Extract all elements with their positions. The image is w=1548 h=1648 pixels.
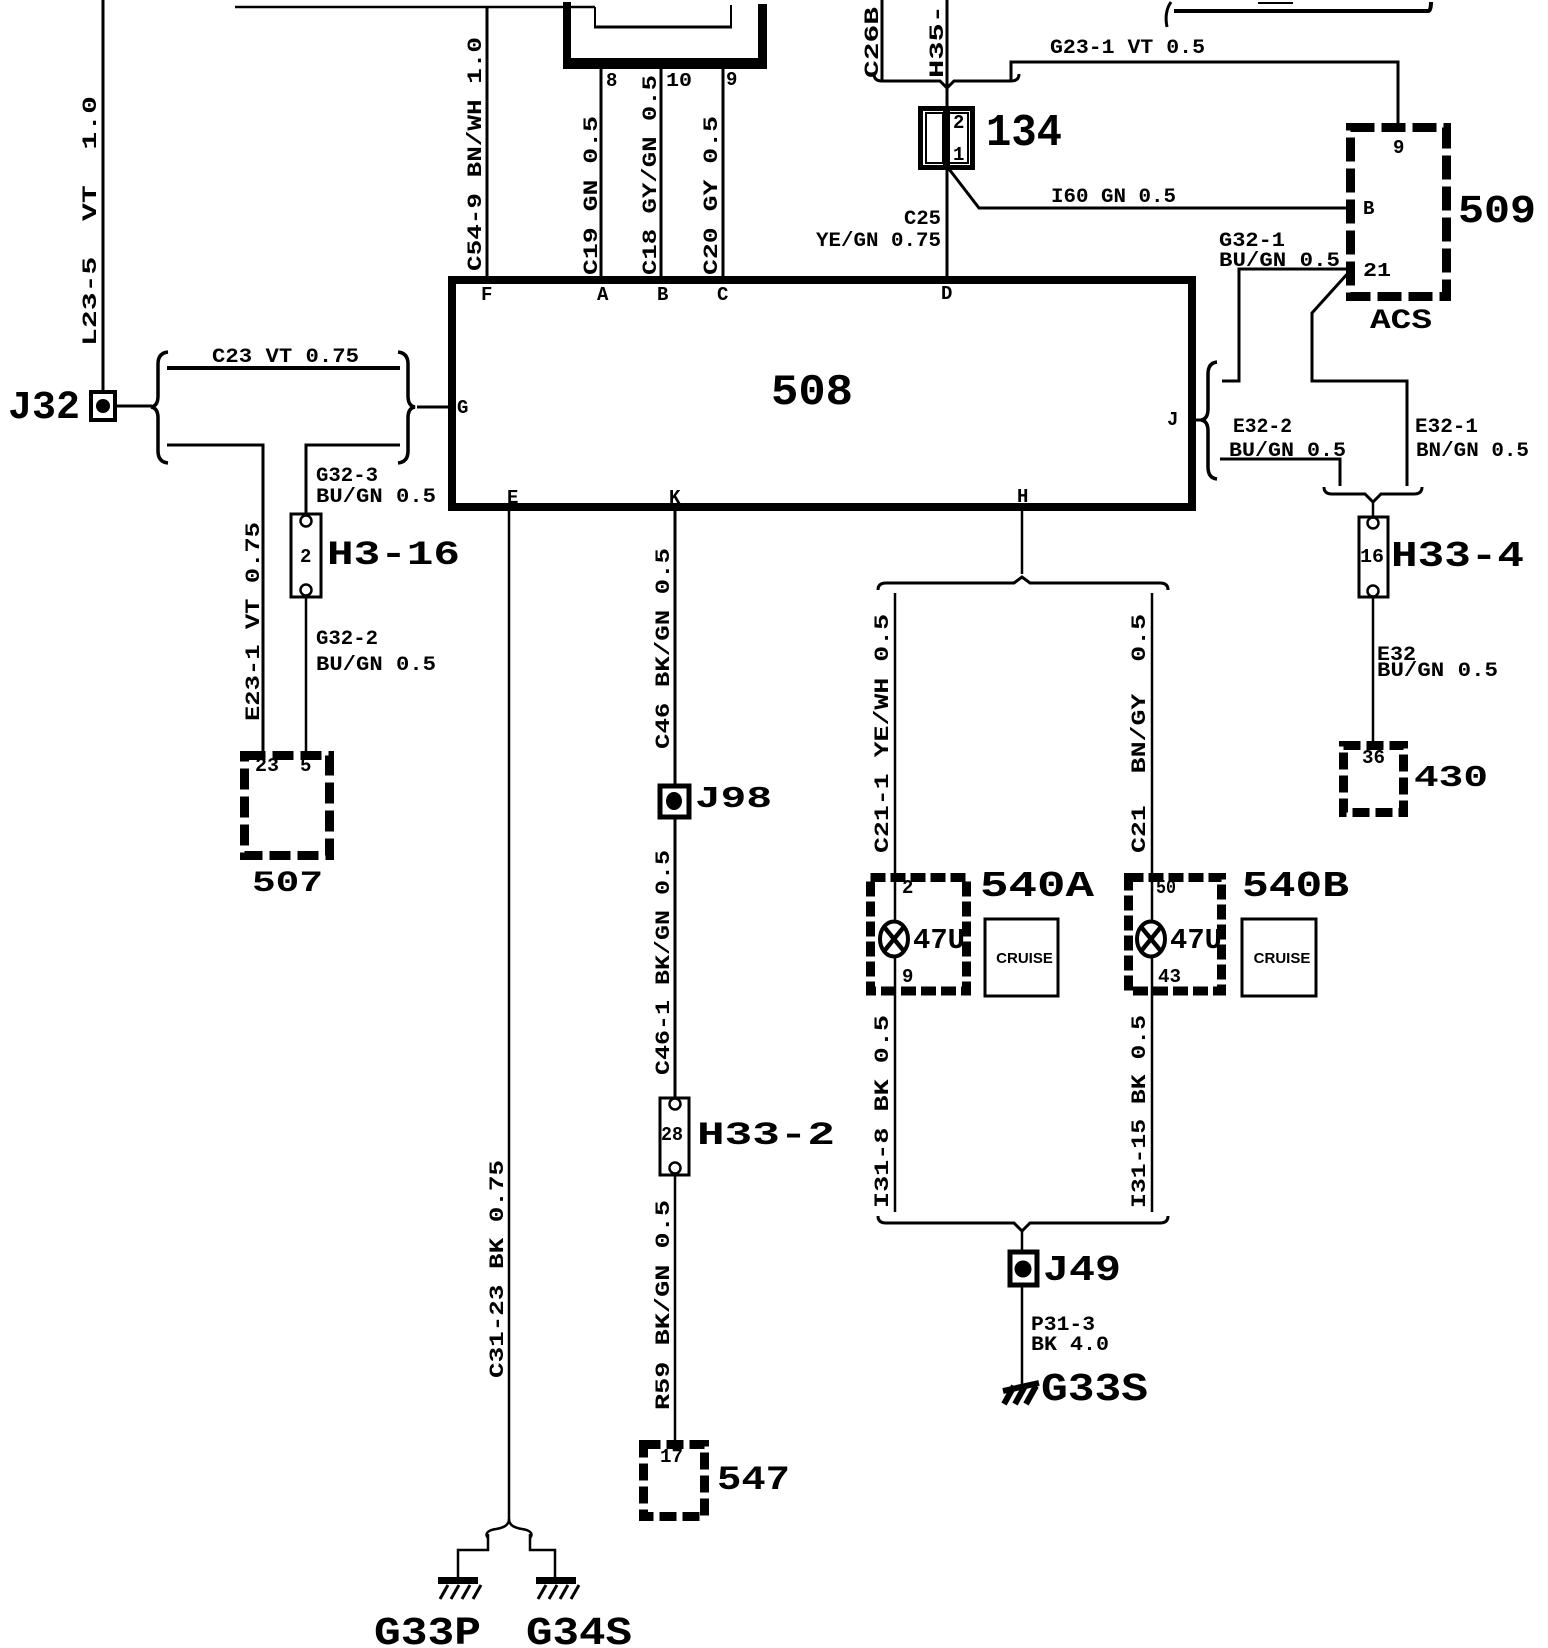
wire G32-3 BU/GN 0.5: [306, 445, 400, 514]
svg-text:36: 36: [1362, 747, 1385, 769]
svg-text:C25: C25: [904, 208, 941, 231]
svg-text:G33S: G33S: [1041, 1368, 1148, 1413]
svg-text:21: 21: [1363, 260, 1391, 282]
connector H33-2 pin 28: [660, 1098, 689, 1175]
wire G23-1 VT 0.5: [1011, 62, 1398, 123]
wire from pin H: [1021, 511, 1024, 574]
svg-text:E: E: [507, 487, 518, 509]
brace bundle join above H33-4: [1324, 487, 1422, 502]
svg-text:2: 2: [300, 546, 311, 568]
svg-text:I31-15 BK 0.5: I31-15 BK 0.5: [1129, 1015, 1152, 1208]
brace bundle join above 134: [874, 74, 1019, 88]
connector H3-16 pin 2: [291, 514, 321, 597]
svg-text:A: A: [597, 284, 609, 306]
wire G32-2 BU/GN 0.5: [305, 597, 308, 751]
wire R59 BK/GN 0.5: [674, 1175, 677, 1440]
wire I31-8 BK 0.5: [894, 996, 897, 1212]
lamp unit 540A: [871, 878, 967, 992]
control unit 509 ACS: [1351, 128, 1447, 297]
wire I60 GN 0.5: [949, 169, 1352, 208]
svg-text:C: C: [717, 284, 728, 306]
connector 134: [921, 109, 973, 168]
wire E32-2 BU/GN 0.5: [1220, 459, 1340, 486]
svg-text:H3-16: H3-16: [327, 537, 460, 575]
svg-text:G32-2: G32-2: [316, 628, 378, 651]
svg-text:547: 547: [717, 1462, 790, 1500]
svg-text:BU/GN 0.5: BU/GN 0.5: [316, 654, 436, 677]
svg-text:F: F: [481, 284, 492, 306]
ground G34S: [536, 1577, 576, 1584]
svg-text:G33P: G33P: [374, 1612, 481, 1648]
splice J98: [660, 786, 689, 817]
wire C20 GY 0.5 pin 9 to C: [722, 69, 725, 276]
svg-text:H33-4: H33-4: [1391, 536, 1524, 577]
splice J32: [91, 392, 115, 420]
wire C18 GY/GN 0.5 pin 10 to B: [660, 69, 663, 276]
wire pin J stub: [1196, 419, 1206, 422]
wire E32 BU/GN 0.5: [1372, 597, 1375, 741]
svg-text:I60 GN 0.5: I60 GN 0.5: [1051, 186, 1176, 209]
svg-text:47U: 47U: [1170, 924, 1222, 957]
svg-text:16: 16: [1360, 546, 1384, 568]
svg-text:C46-1 BK/GN 0.5: C46-1 BK/GN 0.5: [653, 850, 676, 1075]
component top cut-off housing: [563, 2, 571, 69]
svg-text:K: K: [669, 487, 681, 509]
svg-text:YE/GN 0.75: YE/GN 0.75: [816, 230, 941, 253]
svg-text:1: 1: [953, 144, 964, 166]
wire E23-1 VT 0.75: [167, 445, 263, 751]
svg-text:17: 17: [660, 1446, 683, 1468]
brace left of C23 bundle: [151, 352, 168, 463]
svg-text:C19 GN 0.5: C19 GN 0.5: [581, 116, 604, 275]
label CRUISE A: [985, 919, 1058, 996]
wire J32 to brace: [115, 405, 152, 408]
lamp 47U in 540A: [894, 873, 897, 922]
svg-text:509: 509: [1458, 190, 1536, 235]
svg-text:J32: J32: [8, 386, 80, 431]
svg-text:J98: J98: [695, 782, 772, 817]
svg-text:C54-9 BN/WH 1.0: C54-9 BN/WH 1.0: [465, 37, 488, 271]
ground G33S: [1003, 1383, 1039, 1391]
svg-text:BK 4.0: BK 4.0: [1031, 1334, 1109, 1357]
svg-text:C26B: C26B: [862, 7, 885, 78]
svg-text:H: H: [1017, 486, 1028, 508]
svg-text:9: 9: [1393, 137, 1404, 159]
svg-text:540A: 540A: [980, 866, 1095, 907]
wire E32-1 BN/GN 0.5: [1312, 272, 1407, 486]
wire C26B: [881, 0, 884, 81]
svg-text:C21-1 YE/WH 0.5: C21-1 YE/WH 0.5: [872, 614, 895, 853]
wire C46 BK/GN 0.5 from pin K: [674, 511, 677, 784]
svg-text:ACS: ACS: [1370, 306, 1432, 337]
connector 507: [245, 756, 330, 856]
brace right of C23 bundle: [398, 352, 415, 463]
svg-text:540B: 540B: [1242, 866, 1349, 907]
connector 430 pin 36: [1344, 746, 1404, 813]
wire C31-23 BK 0.75 from pin E: [508, 511, 511, 1519]
brace at pin J: [1201, 362, 1217, 479]
svg-text:I31-8 BK 0.5: I31-8 BK 0.5: [872, 1015, 895, 1208]
svg-text:9: 9: [902, 966, 913, 988]
connector H33-4 pin 16: [1359, 517, 1388, 597]
svg-text:R59 BK/GN 0.5: R59 BK/GN 0.5: [653, 1200, 676, 1410]
lamp 47U in 540B: [1151, 873, 1154, 922]
svg-text:G32-3: G32-3: [316, 465, 378, 488]
svg-text:H33-2: H33-2: [697, 1117, 835, 1154]
svg-text:BU/GN 0.5: BU/GN 0.5: [1229, 440, 1346, 463]
wire C19 GN 0.5 pin 8 to A: [600, 69, 603, 276]
svg-text:C46 BK/GN 0.5: C46 BK/GN 0.5: [653, 548, 676, 749]
svg-text:C23 VT 0.75: C23 VT 0.75: [212, 346, 359, 369]
wire brace to pin G: [417, 406, 448, 409]
svg-text:5: 5: [300, 755, 311, 777]
svg-text:2: 2: [953, 112, 964, 134]
svg-text:CRUISE: CRUISE: [996, 950, 1053, 967]
svg-text:E23-1 VT 0.75: E23-1 VT 0.75: [243, 522, 266, 721]
wire C25 YE/GN 0.75 to pin D: [946, 170, 949, 276]
wire P31-3 BK 4.0: [1021, 1287, 1024, 1385]
svg-text:B: B: [1363, 198, 1374, 220]
svg-text:BU/GN 0.5: BU/GN 0.5: [316, 486, 436, 509]
wire brace to J49: [1021, 1231, 1024, 1252]
svg-text:E32-2: E32-2: [1233, 416, 1292, 439]
brace bundle split below H: [878, 577, 1168, 590]
svg-text:J49: J49: [1043, 1250, 1121, 1291]
svg-text:C31-23 BK 0.75: C31-23 BK 0.75: [487, 1160, 510, 1378]
splice J49: [1010, 1252, 1037, 1285]
svg-text:508: 508: [771, 368, 853, 418]
wire L23-5 VT 1.0: [102, 0, 105, 392]
svg-text:G34S: G34S: [526, 1612, 632, 1648]
svg-text:47U: 47U: [913, 924, 965, 957]
svg-text:9: 9: [726, 69, 737, 91]
svg-text:43: 43: [1158, 966, 1181, 988]
svg-text:BU/GN 0.5: BU/GN 0.5: [1219, 250, 1340, 273]
svg-text:BN/GN 0.5: BN/GN 0.5: [1416, 440, 1529, 463]
wire top feed: [235, 6, 595, 9]
ECU box 508: [452, 280, 1192, 507]
wire C21 BN/GY 0.5: [1151, 593, 1154, 876]
svg-text:C21 BN/GY 0.5: C21 BN/GY 0.5: [1129, 614, 1152, 853]
wire C54-9 BN/WH 1.0 to pin F: [486, 7, 489, 276]
connector 547 pin 17: [644, 1445, 705, 1517]
wire I31-15 BK 0.5: [1151, 996, 1154, 1212]
wire C46-1 BK/GN 0.5: [674, 818, 677, 1098]
wire C21-1 YE/WH 0.5: [894, 593, 897, 876]
svg-text:E32-1: E32-1: [1415, 416, 1478, 439]
label CRUISE B: [1242, 919, 1316, 996]
svg-text:8: 8: [606, 70, 617, 92]
svg-text:10: 10: [666, 70, 692, 92]
wire H35-: [946, 0, 949, 106]
svg-text:C18 GY/GN 0.5: C18 GY/GN 0.5: [640, 75, 663, 275]
svg-text:50: 50: [1156, 877, 1176, 899]
top right cut-off brace: [1166, 2, 1171, 27]
svg-text:C20 GY 0.5: C20 GY 0.5: [701, 116, 724, 275]
svg-text:G23-1 VT 0.5: G23-1 VT 0.5: [1050, 37, 1205, 60]
svg-text:23: 23: [255, 755, 279, 777]
svg-text:H35-: H35-: [927, 5, 950, 78]
svg-text:430: 430: [1414, 761, 1488, 796]
ground G33P: [438, 1577, 478, 1584]
ground split junction: [487, 1519, 509, 1538]
svg-text:L23-5 VT 1.0: L23-5 VT 1.0: [80, 96, 103, 346]
svg-text:D: D: [941, 283, 952, 305]
svg-text:BU/GN 0.5: BU/GN 0.5: [1377, 660, 1498, 683]
wire G32-1 BU/GN 0.5: [1222, 269, 1347, 381]
svg-text:507: 507: [252, 867, 323, 901]
svg-text:134: 134: [986, 108, 1062, 159]
svg-text:28: 28: [661, 1124, 683, 1146]
wire C23 VT 0.75: [167, 366, 400, 370]
svg-text:CRUISE: CRUISE: [1254, 950, 1311, 967]
lamp unit 540B: [1129, 878, 1222, 992]
svg-text:G: G: [457, 397, 468, 419]
brace bundle join above J49: [878, 1216, 1168, 1231]
svg-text:J: J: [1167, 409, 1178, 431]
wire brace to H33-4: [1372, 502, 1375, 518]
svg-text:B: B: [657, 284, 668, 306]
svg-text:2: 2: [902, 877, 913, 899]
